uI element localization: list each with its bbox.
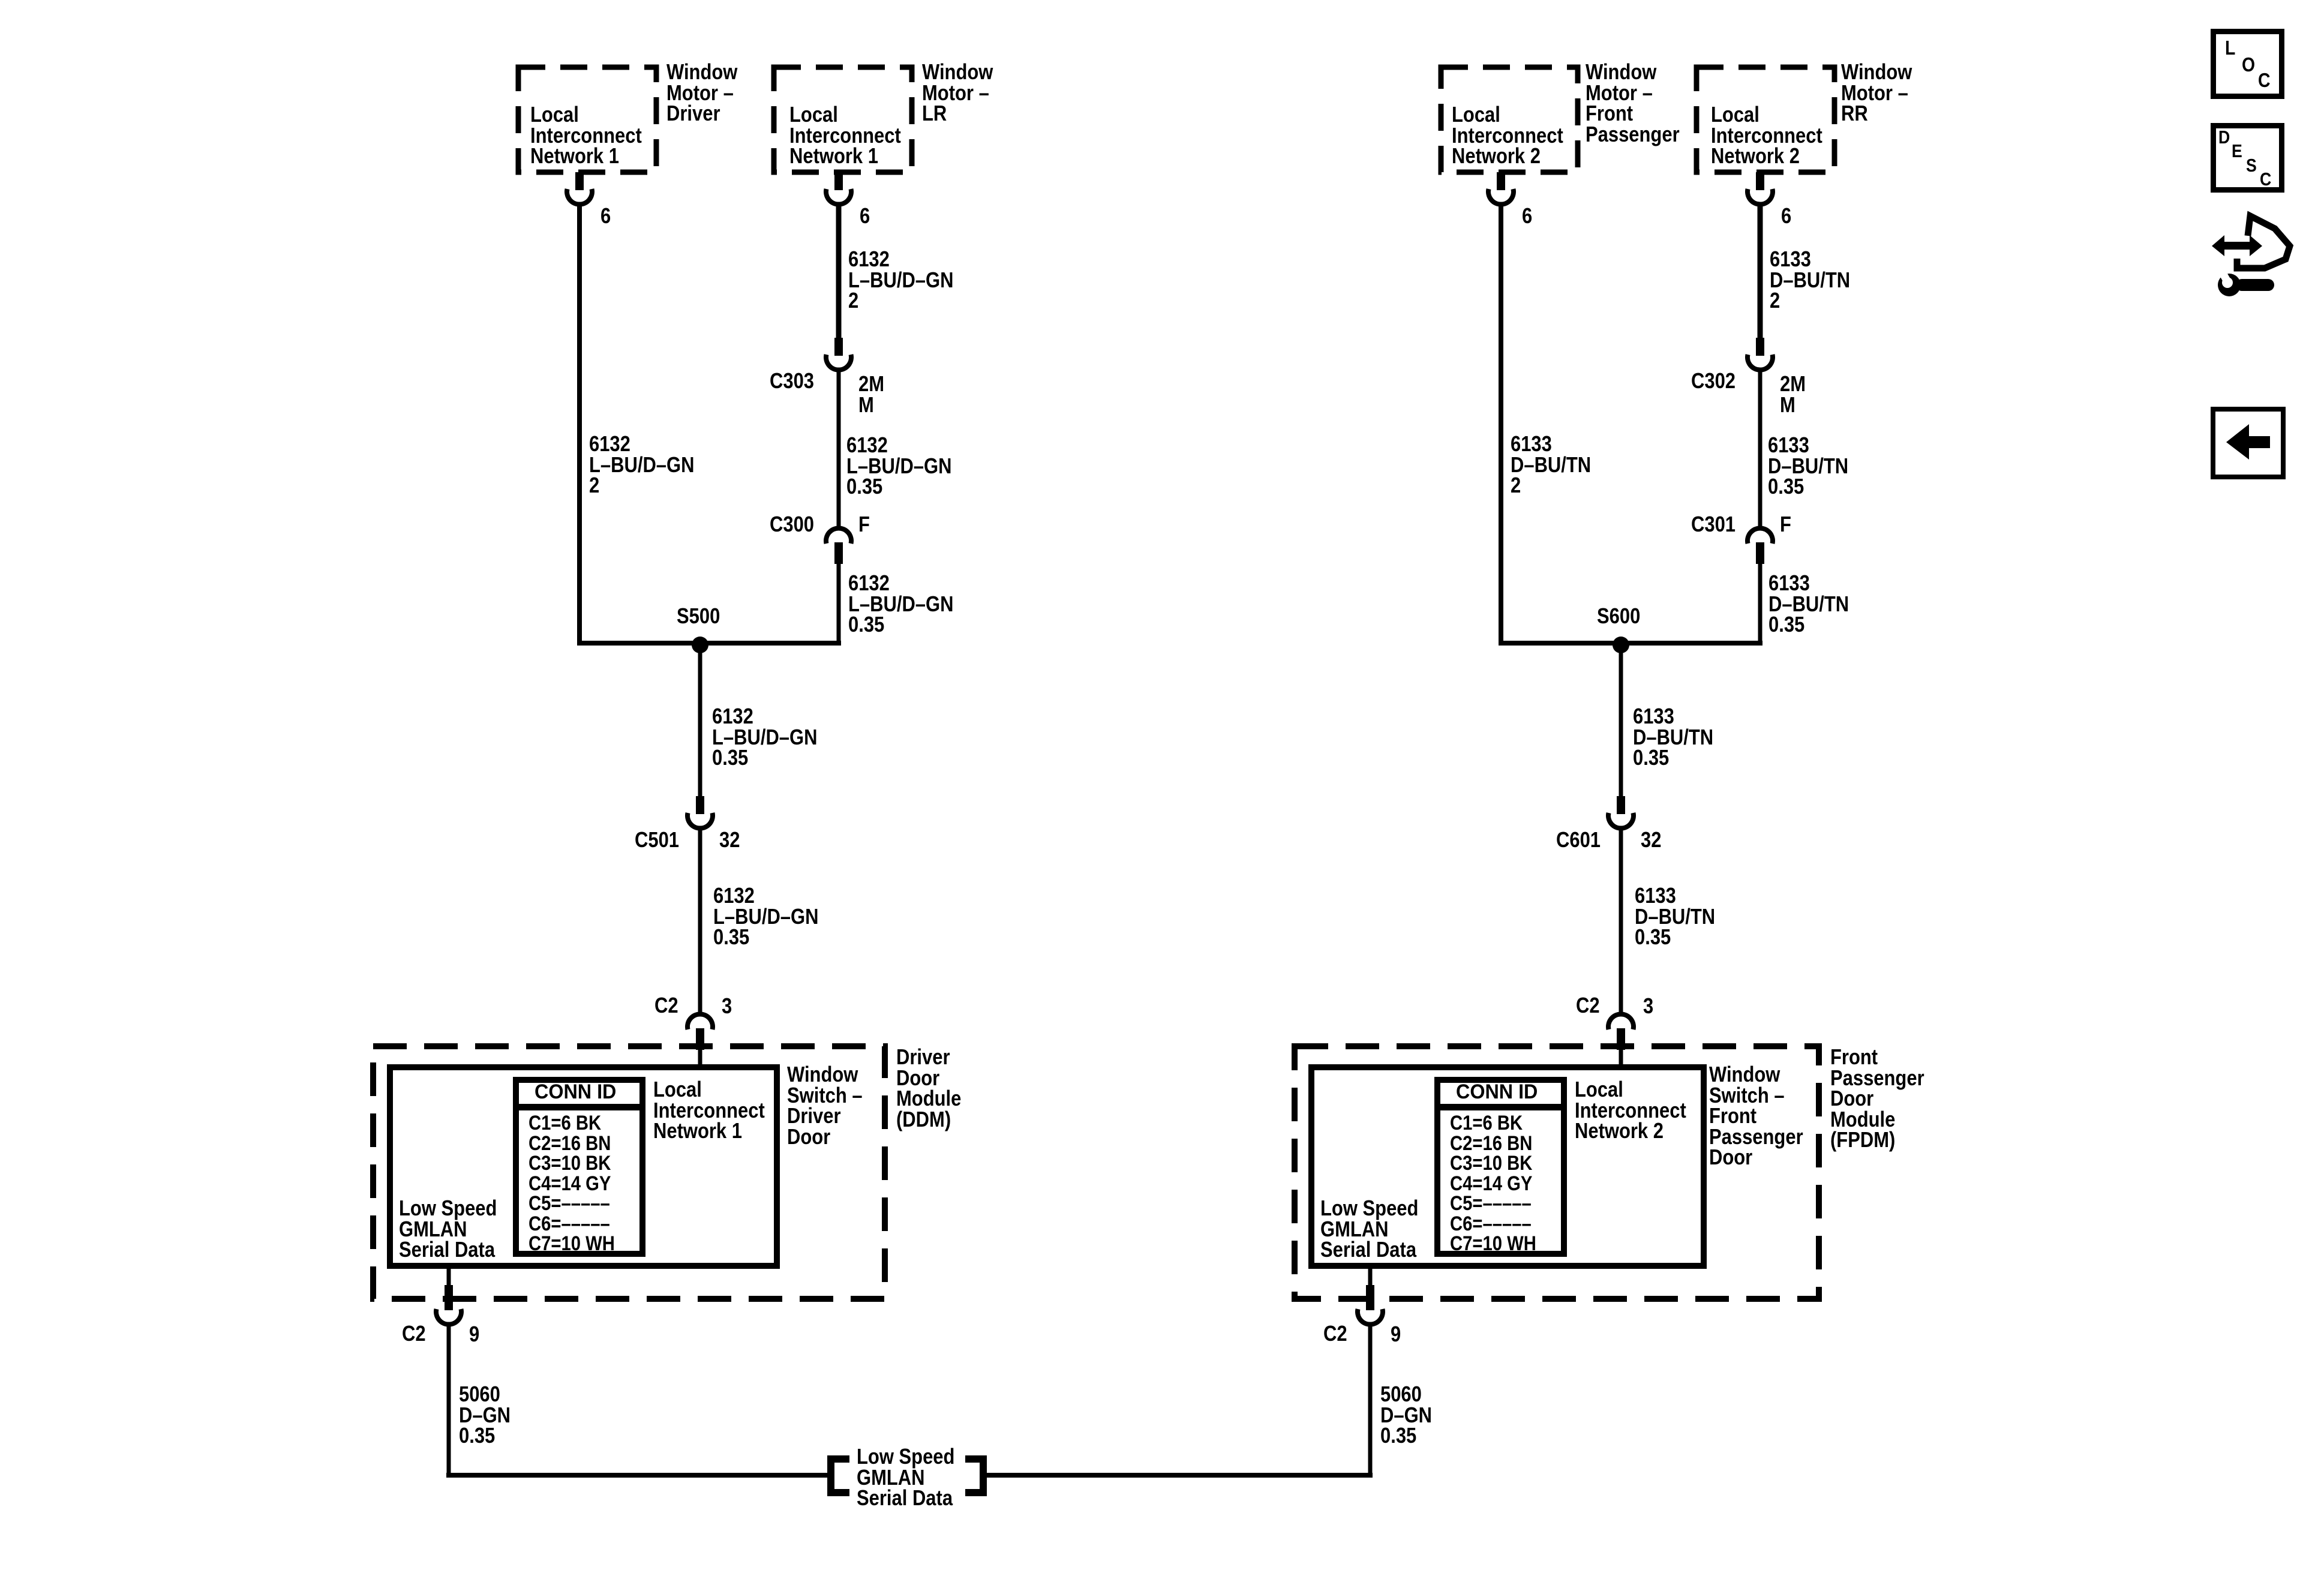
label: Low Speed GMLAN Serial Data (FPDM internal): [1320, 1198, 1418, 1260]
label: Local Interconnect Network 2 (FPDM): [1575, 1079, 1686, 1142]
splice S500 junction dot: [692, 637, 708, 653]
label: Local Interconnect Network 2 (Window Motor - Front Passenger): [1452, 104, 1563, 167]
connector label C2 (FPDM pin 9): [1323, 1323, 1347, 1344]
table header CONN ID (DDM): [535, 1082, 616, 1103]
label: Low Speed GMLAN Serial Data (DDM internal): [399, 1198, 497, 1260]
net bracket: Low Speed GMLAN Serial Data (right bracket): [965, 1459, 983, 1493]
wire: 6132 from S500 down to C501: [698, 643, 702, 799]
table: CONN ID box (DDM): [514, 1080, 645, 1254]
wire: 6132 from Window Motor - Driver down to S500: [577, 205, 582, 643]
wire: into DDM from C2 pin: [698, 1044, 702, 1070]
wire label 6132 L-BU/D-GN 0.35 (S500 to C501): [712, 706, 817, 769]
connector C302 (2M/M): [1747, 338, 1773, 370]
wire: GMLAN from DDM box bottom to C2 pin 9: [447, 1266, 451, 1291]
component: Window Motor - LR (dashed outline): [774, 67, 912, 172]
pin label F at C301: [1780, 514, 1791, 535]
table rows connector IDs (FPDM): [1450, 1113, 1536, 1254]
icon letters DESC - E: [2232, 141, 2242, 162]
label: Window Motor - RR: [1841, 62, 1912, 124]
wire: GMLAN from FPDM box bottom to C2 pin 9: [1368, 1266, 1373, 1291]
component: Window Motor - Driver (dashed outline): [518, 67, 656, 172]
label: Window Motor - Front Passenger: [1586, 62, 1680, 145]
icon letters DESC - C: [2260, 169, 2271, 190]
wire: 6132 between C303 and C300: [837, 371, 841, 529]
wire: 6133 from S600 down to C601: [1619, 643, 1623, 799]
table: CONN ID box (FPDM): [1435, 1080, 1566, 1254]
connector C2 pin 9 at DDM bottom: [436, 1285, 461, 1325]
wire: 6132 from Window Motor - LR down to C303: [836, 205, 842, 339]
icon letters LOC - O: [2242, 55, 2255, 76]
label: Local Interconnect Network 2 (Window Motor - RR): [1711, 104, 1822, 167]
pin label F at C300: [858, 514, 870, 535]
splice label S500: [677, 606, 720, 627]
icon: LOC box: [2214, 32, 2282, 97]
splice label S600: [1597, 606, 1640, 627]
wire label 6133 D-BU/TN 0.35 (C302 to C301): [1768, 435, 1848, 497]
icon: back arrow: [2226, 424, 2270, 460]
pin number 32 at C501: [719, 830, 740, 851]
pin number 6 (Window Motor - LR): [860, 206, 870, 227]
wire: S500 splice horizontal joint: [577, 641, 841, 646]
pin number 6 (Window Motor - RR): [1781, 206, 1791, 227]
wire: into FPDM from C2 pin: [1619, 1044, 1623, 1070]
pin number 3 at DDM C2: [722, 996, 732, 1017]
icon: back arrow box: [2213, 409, 2283, 477]
pin label 2M / M at C303: [858, 374, 884, 415]
label: Local Interconnect Network 1 (Window Motor - LR): [789, 104, 901, 167]
pin number 9 at DDM C2: [469, 1324, 479, 1345]
connector C2 pin 3 at DDM: [687, 1014, 713, 1050]
wire: 6133 from Window Motor - RR down to C302: [1758, 205, 1763, 339]
component: Window Motor - RR (dashed outline): [1697, 67, 1834, 172]
wire: 6132 between C300 and S500: [837, 563, 841, 643]
net label: Low Speed GMLAN Serial Data (bus): [857, 1446, 954, 1509]
connector: Window Motor - Front Passenger pin 6: [1488, 172, 1514, 205]
label: Window Switch - Front Passenger Door: [1709, 1064, 1803, 1168]
wire label 5060 D-GN 0.35 (FPDM side): [1380, 1384, 1432, 1446]
connector C301 (F): [1747, 528, 1773, 564]
connector label C302: [1691, 371, 1736, 392]
connector C501 pin 32: [687, 796, 713, 828]
connector label C2 (DDM pin 3): [654, 995, 678, 1016]
component: Window Switch - Driver Door (solid box): [390, 1067, 777, 1266]
wire label 6133 D-BU/TN 0.35 (C301 to S600): [1768, 573, 1849, 635]
wire: 6133 between C302 and C301: [1758, 371, 1762, 529]
component: Window Switch - Front Passenger Door (solid box): [1311, 1067, 1704, 1266]
wire label 6132 L-BU/D-GN 0.35 (C300 to S500): [848, 573, 953, 635]
label: Local Interconnect Network 1 (Window Motor - Driver): [530, 104, 642, 167]
icon letters LOC - C: [2258, 70, 2271, 91]
table header CONN ID (FPDM): [1456, 1082, 1538, 1103]
icon: harness double arrow: [2212, 235, 2262, 256]
wire: 6133 from C601 down to FPDM C2 pin 3: [1619, 829, 1623, 1012]
wire: 5060 D-GN from DDM C2 down and right to GMLAN bus: [446, 1325, 827, 1478]
connector C601 pin 32: [1608, 796, 1634, 828]
connector: Window Motor - LR pin 6: [826, 172, 851, 205]
wire: 5060 D-GN from FPDM C2 down and left to GMLAN bus: [987, 1325, 1373, 1478]
splice S600 junction dot: [1613, 637, 1629, 653]
module: Front Passenger Door Module FPDM (dashed outline): [1295, 1046, 1819, 1299]
wire label 6133 D-BU/TN 2 (front passenger motor wire): [1511, 434, 1591, 496]
wire: 6133 between C301 and S600: [1758, 563, 1762, 643]
connector label C301: [1691, 514, 1736, 535]
icon letters DESC - S: [2246, 155, 2257, 176]
icon letters LOC - L: [2225, 38, 2235, 59]
wire label 6133 D-BU/TN 0.35 (S600 to C601): [1633, 706, 1713, 769]
pin number 3 at FPDM C2: [1643, 996, 1653, 1017]
wire: 6133 from Window Motor - Front Passenger down to S600: [1499, 205, 1503, 643]
connector label C501: [635, 830, 679, 851]
wire: 6132 from C501 down to DDM C2 pin 3: [698, 829, 702, 1012]
connector C300 (F): [826, 528, 851, 564]
pin number 6 (Window Motor - Front Passenger): [1522, 206, 1532, 227]
connector label C2 (FPDM pin 3): [1576, 995, 1600, 1016]
connector: Window Motor - Driver pin 6: [567, 172, 592, 205]
label: Window Switch - Driver Door: [787, 1064, 863, 1147]
label: Window Motor - Driver: [666, 62, 737, 124]
icon: wrench: [2216, 265, 2274, 296]
table rows connector IDs (DDM): [529, 1113, 615, 1254]
icon: DESC box: [2214, 126, 2282, 190]
wire label 6132 L-BU/D-GN 0.35 (C303 to C300): [846, 435, 951, 497]
pin number 32 at C601: [1641, 830, 1661, 851]
label: Driver Door Module (DDM): [896, 1047, 961, 1130]
connector: Window Motor - RR pin 6: [1747, 172, 1773, 205]
label: Front Passenger Door Module (FPDM): [1830, 1047, 1924, 1151]
label: Window Motor - LR: [922, 62, 993, 124]
connector C2 pin 3 at FPDM: [1608, 1014, 1634, 1050]
connector label C300: [770, 514, 814, 535]
connector label C601: [1556, 830, 1601, 851]
wire label 5060 D-GN 0.35 (DDM side): [459, 1384, 511, 1446]
pin number 6 (Window Motor - Driver): [600, 206, 611, 227]
net bracket: Low Speed GMLAN Serial Data (left bracket): [831, 1459, 849, 1493]
connector label C303: [770, 371, 814, 392]
component: Window Motor - Front Passenger (dashed outline): [1441, 67, 1578, 172]
wire label 6132 L-BU/D-GN 2 (LR motor wire): [848, 249, 953, 311]
wire label 6132 L-BU/D-GN 2 (driver motor wire): [589, 434, 694, 496]
wire label 6133 D-BU/TN 2 (RR motor wire): [1770, 249, 1850, 311]
pin label 2M / M at C302: [1780, 374, 1806, 415]
pin number 9 at FPDM C2: [1391, 1324, 1401, 1345]
wire label 6133 D-BU/TN 0.35 (C601 to FPDM): [1635, 885, 1715, 948]
module: Driver Door Module DDM (dashed outline): [373, 1046, 885, 1299]
connector C303 (2M/M): [826, 338, 851, 370]
icon: harness wire outline: [2237, 216, 2290, 268]
label: Local Interconnect Network 1 (DDM): [653, 1079, 765, 1142]
connector label C2 (DDM pin 9): [402, 1323, 426, 1344]
icon letters DESC - D: [2218, 127, 2230, 148]
wire: S600 splice horizontal joint: [1499, 641, 1762, 646]
wire label 6132 L-BU/D-GN 0.35 (C501 to DDM): [713, 885, 818, 948]
connector C2 pin 9 at FPDM bottom: [1358, 1285, 1383, 1325]
